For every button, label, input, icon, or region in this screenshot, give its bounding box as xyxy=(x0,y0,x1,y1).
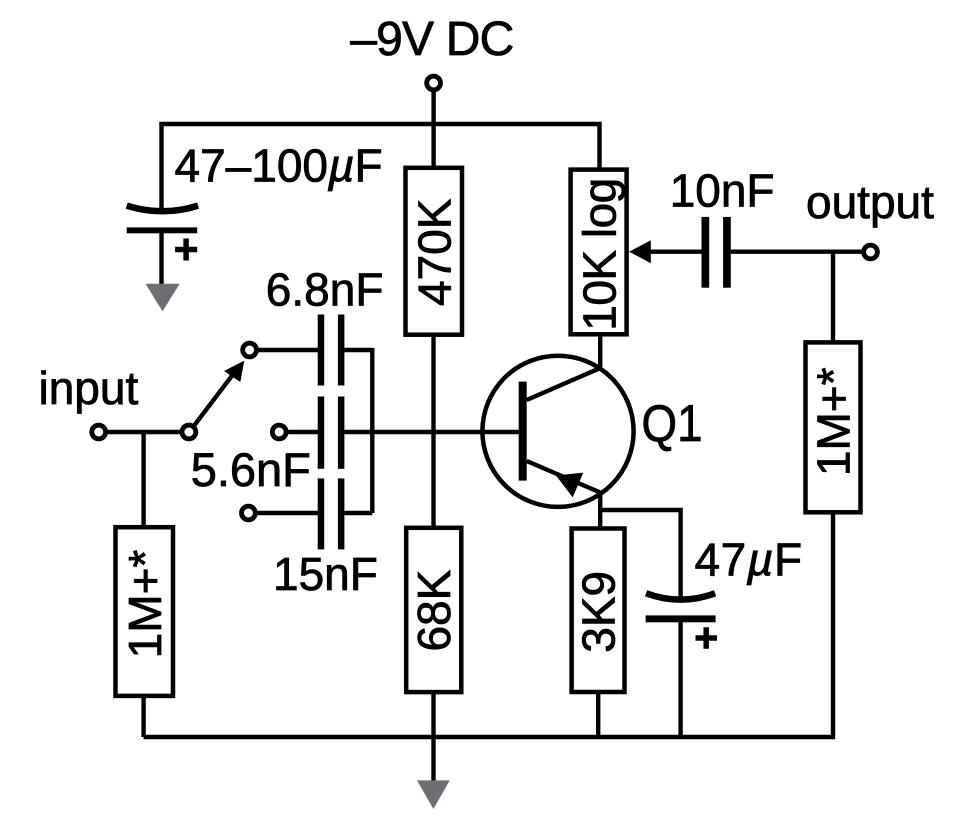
svg-text:15nF: 15nF xyxy=(273,548,378,600)
svg-text:10K log: 10K log xyxy=(574,178,626,331)
svg-text:output: output xyxy=(806,176,934,228)
svg-text:47µF: 47µF xyxy=(695,534,803,586)
svg-text:47–100µF: 47–100µF xyxy=(175,140,383,192)
svg-text:470K: 470K xyxy=(408,198,460,306)
svg-text:1M+*: 1M+* xyxy=(119,550,171,659)
svg-text:1M+*: 1M+* xyxy=(807,367,859,476)
svg-text:3K9: 3K9 xyxy=(573,571,625,653)
svg-text:Q1: Q1 xyxy=(642,395,703,453)
svg-text:5.6nF: 5.6nF xyxy=(191,443,311,496)
svg-text:10nF: 10nF xyxy=(670,165,775,217)
svg-text:68K: 68K xyxy=(408,569,460,651)
svg-text:input: input xyxy=(39,362,139,414)
svg-text:6.8nF: 6.8nF xyxy=(266,264,384,316)
svg-text:–9V DC: –9V DC xyxy=(350,13,513,66)
